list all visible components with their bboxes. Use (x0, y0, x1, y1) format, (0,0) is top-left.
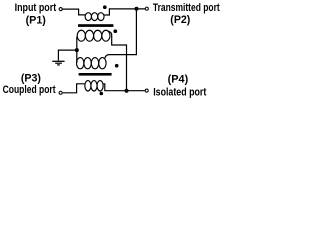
phase dot T2 secondary (100, 92, 104, 96)
wire P1 to T1 primary (62, 9, 85, 15)
svg-text:(P1): (P1) (26, 14, 47, 26)
svg-text:(P3): (P3) (21, 73, 42, 85)
phase dot T1 secondary (113, 29, 117, 33)
wire T1 secondary to P3-P4 line (108, 31, 126, 90)
svg-text:Isolated port: Isolated port (153, 87, 206, 99)
terminal P1 (input port) (59, 8, 62, 11)
svg-text:Transmitted port: Transmitted port (153, 2, 220, 14)
ground (52, 61, 64, 65)
terminal P3 (coupled port) (59, 91, 62, 94)
junction node ground (75, 48, 79, 52)
transformer T1 primary winding (3 loops) (85, 13, 104, 21)
wire junction to ground (58, 50, 76, 60)
phase dot T2 primary (115, 64, 119, 68)
terminal P2 (transmitted port) (145, 7, 148, 10)
transformer T1 core (78, 24, 113, 27)
transformer T2 primary winding (4 loops) (77, 58, 107, 69)
svg-text:(P2): (P2) (170, 14, 190, 26)
phase dot T1 primary (103, 5, 107, 9)
svg-text:(P4): (P4) (168, 74, 189, 86)
terminal P4 (isolated port) (145, 89, 148, 92)
wire T1 primary to P2 node (104, 9, 146, 15)
transformer T1 secondary winding (4 loops) (77, 30, 110, 41)
svg-text:Input port: Input port (15, 2, 57, 14)
transformer T2 secondary winding (3 loops) (85, 81, 103, 91)
svg-text:Coupled port: Coupled port (3, 84, 56, 96)
junction node P4 line (125, 89, 129, 93)
wire T2 secondary to P4 (103, 84, 145, 91)
junction node P2 (135, 7, 139, 11)
transformer T2 core (79, 73, 112, 76)
wire P3 to T2 secondary (63, 84, 86, 93)
wire T1 secondary / T2 primary to ground junction (76, 37, 78, 63)
wire T2 primary to P2 node (rail) (105, 9, 136, 58)
